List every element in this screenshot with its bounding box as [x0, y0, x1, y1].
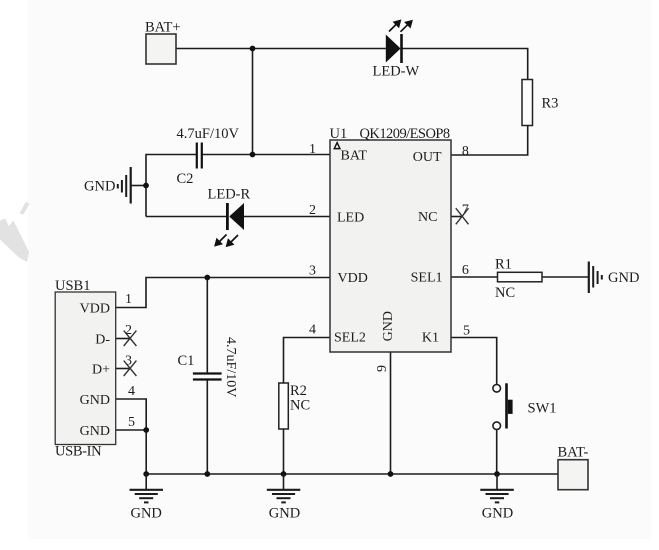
wire GND stub at node C2-	[132, 185, 147, 187]
svg-text:GND: GND	[381, 311, 396, 341]
svg-text:4.7uF/10V: 4.7uF/10V	[177, 126, 240, 142]
svg-text:SW1: SW1	[528, 401, 557, 417]
wire R1 to GND symbol	[542, 276, 588, 278]
no-connect X on IC pin 7	[456, 208, 469, 224]
svg-text:8: 8	[462, 144, 469, 159]
svg-text:4.7uF/10V: 4.7uF/10V	[223, 337, 238, 397]
terminal BAT+	[145, 20, 181, 65]
svg-text:SEL1: SEL1	[411, 271, 443, 286]
wire IC pin4 SEL2 to R2	[284, 338, 331, 384]
svg-text:9: 9	[375, 365, 390, 372]
wire BAT+ to junction	[176, 48, 253, 50]
svg-text:GND: GND	[80, 424, 110, 439]
junction dot BAT+ node top	[250, 46, 256, 52]
resistor R1	[495, 257, 542, 302]
switch SW1	[493, 383, 557, 429]
svg-text:R3: R3	[542, 96, 559, 112]
junction dot rail at USB	[143, 471, 149, 477]
svg-text:R1: R1	[495, 257, 512, 273]
wire R3 bottom to IC pin 8	[451, 126, 528, 156]
wire junction to LED-W anode	[253, 48, 386, 50]
svg-text:USB-IN: USB-IN	[55, 444, 102, 460]
wire C1 top lead	[206, 278, 208, 373]
svg-text:QK1209/ESOP8: QK1209/ESOP8	[360, 126, 450, 142]
wire LED-R to IC pin 2	[244, 216, 330, 218]
svg-text:LED-W: LED-W	[373, 64, 420, 80]
wire IC pin6 SEL1 to R1	[451, 276, 498, 278]
svg-text:GND: GND	[608, 270, 639, 286]
svg-text:4: 4	[128, 384, 135, 399]
svg-text:U1: U1	[330, 126, 348, 142]
junction dot USB GND pins	[143, 427, 149, 433]
ground symbol at C2 (signal ground, sideways)	[84, 167, 131, 204]
node junction C2/GND	[143, 183, 149, 189]
wire IC pin9 GND to rail	[390, 352, 392, 474]
connector USB1	[55, 278, 116, 460]
wire USB GND pin4 to ground rail	[116, 399, 146, 474]
svg-text:SEL2: SEL2	[334, 331, 366, 346]
svg-text:C2: C2	[177, 171, 194, 187]
svg-text:NC: NC	[418, 210, 437, 225]
wire VDD net: USB pin1 up to pin3 rail	[116, 278, 330, 308]
svg-text:2: 2	[309, 203, 316, 218]
svg-text:D-: D-	[95, 333, 110, 348]
wire SW1 bottom to rail	[496, 430, 498, 475]
svg-text:6: 6	[462, 263, 469, 278]
terminal BAT-	[558, 445, 589, 490]
svg-text:1: 1	[125, 292, 132, 307]
resistor R2	[279, 383, 310, 429]
svg-text:C1: C1	[178, 353, 195, 369]
svg-text:VDD: VDD	[80, 302, 110, 317]
wire R2 bottom to rail	[283, 429, 285, 474]
svg-text:LED: LED	[337, 211, 364, 226]
wire IC pin7 NC stub	[451, 216, 463, 218]
svg-text:VDD: VDD	[338, 271, 368, 286]
no-connect X on USB D+	[124, 361, 137, 376]
svg-text:BAT: BAT	[341, 149, 368, 164]
wire junction down to C2 net	[252, 49, 254, 155]
svg-text:4: 4	[309, 323, 316, 338]
svg-text:3: 3	[309, 264, 316, 279]
resistor R3	[522, 80, 558, 126]
ground symbol under USB rail	[130, 474, 164, 522]
svg-text:BAT-: BAT-	[558, 445, 589, 461]
junction dot rail at SW1	[494, 471, 500, 477]
capacitor C1	[178, 337, 239, 397]
junction dot rail at R2	[281, 471, 287, 477]
svg-text:1: 1	[309, 142, 316, 157]
wire USB D- stub	[116, 338, 129, 340]
junction dot BAT net at C2	[250, 152, 256, 158]
junction dot rail at C1	[204, 471, 210, 477]
wire C1 bottom lead	[206, 380, 208, 474]
svg-text:LED-R: LED-R	[208, 187, 251, 203]
wire ground rail	[146, 473, 558, 475]
wire LED-W cathode to top-right corner	[403, 49, 528, 80]
svg-text:NC: NC	[290, 398, 310, 414]
wire C2 right lead to IC pin 1	[202, 154, 330, 156]
wire C2 left lead	[146, 155, 196, 217]
no-connect X on USB D-	[124, 331, 137, 346]
ground symbol at R1 (signal ground, sideways)	[589, 262, 640, 294]
svg-text:OUT: OUT	[413, 150, 442, 165]
LED D? LED-R	[208, 187, 251, 246]
svg-text:USB1: USB1	[55, 278, 90, 294]
wire USB D+ stub	[116, 368, 129, 370]
junction dot rail at IC GND	[388, 471, 394, 477]
svg-text:GND: GND	[130, 506, 161, 522]
svg-text:5: 5	[128, 415, 135, 430]
svg-text:GND: GND	[80, 393, 110, 408]
svg-text:BAT+: BAT+	[145, 20, 181, 36]
LED D? LED-W	[373, 21, 420, 80]
svg-text:GND: GND	[482, 506, 513, 522]
junction dot VDD net at C1	[204, 275, 210, 281]
svg-text:GND: GND	[84, 179, 115, 195]
IC U1 QK1209/ESOP8	[330, 126, 452, 352]
ground symbol under R2	[267, 474, 301, 522]
svg-text:GND: GND	[269, 506, 300, 522]
svg-text:D+: D+	[92, 363, 110, 378]
svg-text:5: 5	[463, 324, 470, 339]
wire IC pin5 K1 to SW1	[451, 338, 497, 385]
wire USB GND pin5 stub	[116, 429, 146, 431]
svg-text:NC: NC	[495, 285, 515, 301]
ground symbol under SW1	[480, 474, 514, 522]
capacitor C2	[177, 126, 240, 187]
wire LED-R anode side	[146, 216, 226, 218]
svg-text:K1: K1	[422, 331, 439, 346]
